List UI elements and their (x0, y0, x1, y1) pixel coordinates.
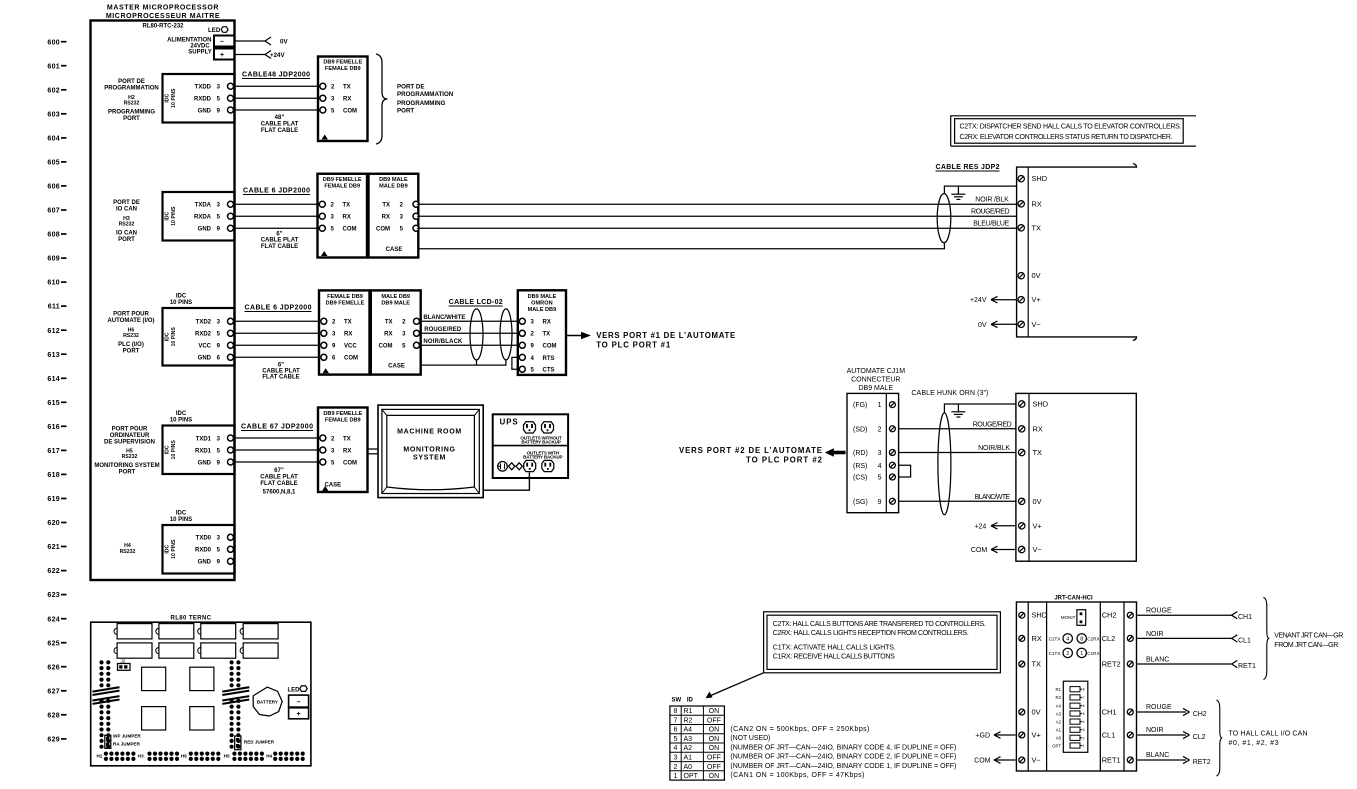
svg-text:J2: J2 (121, 659, 126, 664)
svg-text:UPS: UPS (500, 418, 519, 427)
svg-text:A1: A1 (684, 755, 693, 762)
wire NOIR from CL1 (1137, 637, 1231, 639)
svg-text:603: 603 (47, 111, 60, 118)
svg-text:TO HALL CALL I/O CAN: TO HALL CALL I/O CAN (1229, 731, 1308, 738)
wire +24V (235, 54, 266, 56)
svg-text:616: 616 (47, 424, 60, 431)
svg-text:GND: GND (198, 356, 212, 362)
svg-text:CABLE RES JDP2: CABLE RES JDP2 (936, 164, 1000, 171)
wire GND to pin5 (234, 109, 320, 111)
svg-text:602: 602 (47, 87, 60, 94)
svg-text:COM: COM (379, 344, 393, 350)
wire NOIR to CL2 (1137, 734, 1186, 736)
wire monitor to UPS (483, 473, 529, 491)
svg-text:PROGRAMMATION: PROGRAMMATION (104, 86, 159, 92)
svg-text:NOIR: NOIR (1146, 631, 1164, 638)
svg-text:OFF: OFF (707, 764, 721, 771)
svg-text:ON: ON (709, 745, 720, 752)
dispatcher box (open right) (1017, 164, 1137, 341)
svg-text:V+: V+ (1032, 295, 1041, 304)
svg-text:617: 617 (47, 448, 60, 455)
terminal RX (1019, 635, 1025, 641)
svg-text:COM: COM (343, 227, 357, 233)
wire (234, 449, 322, 451)
outlet without battery backup 1 (524, 422, 536, 433)
square chip (142, 707, 166, 730)
wire ROUGE to CH2 (1137, 711, 1186, 713)
svg-text:V+: V+ (1033, 521, 1042, 530)
svg-text:C1RX: RECEIVE HALL CALLS B: C1RX: RECEIVE HALL CALLS BUTTONS (773, 654, 895, 661)
svg-text:CABLE PLAT: CABLE PLAT (261, 238, 299, 244)
svg-text:SHD: SHD (1032, 174, 1048, 183)
wire (234, 356, 320, 358)
svg-text:GND: GND (198, 227, 212, 233)
wire BLANC from RET1 (1137, 663, 1231, 665)
terminal V+ (1019, 523, 1025, 529)
connector DB9 male IO CAN (369, 174, 419, 258)
svg-text:610: 610 (47, 280, 60, 287)
svg-text:67”: 67” (274, 468, 284, 474)
WP/RA jumper block (105, 735, 111, 748)
svg-text:2: 2 (878, 426, 882, 433)
svg-text:JRT-CAN-HCI: JRT-CAN-HCI (1054, 596, 1093, 602)
terminal SHD (1019, 612, 1025, 618)
svg-text:RXD1: RXD1 (195, 448, 212, 454)
svg-text:C2RX: HALL CALLS LIGHTS RE: C2RX: HALL CALLS LIGHTS RECEPTION FROM C… (773, 630, 969, 637)
terminal RX (1018, 201, 1024, 207)
svg-text:#0, #1, #2, #3: #0, #1, #2, #3 (1229, 740, 1279, 747)
wire SHD (944, 404, 1016, 413)
svg-text:A4: A4 (1056, 704, 1062, 709)
wire blanc/white (420, 320, 522, 322)
wire TXDD to pin2 (234, 85, 320, 87)
svg-text:MALE DB9: MALE DB9 (381, 294, 410, 300)
svg-text:10 PINS: 10 PINS (171, 327, 177, 347)
svg-text:IO CAN: IO CAN (116, 207, 137, 213)
svg-text:C2TX: HALL CALLS BUTTONS A: C2TX: HALL CALLS BUTTONS ARE TRANSFERED … (773, 621, 986, 628)
svg-text:ON: ON (709, 727, 720, 734)
svg-text:RL80-RTC-232: RL80-RTC-232 (142, 24, 184, 30)
svg-text:IDC: IDC (164, 544, 170, 553)
svg-text:TXD1: TXD1 (196, 436, 212, 442)
svg-text:ROUGE/RED: ROUGE/RED (424, 327, 462, 333)
svg-text:GND: GND (198, 460, 212, 466)
wire rouge/red (420, 332, 522, 334)
wire case to shields (421, 360, 506, 365)
svg-text:IO CAN: IO CAN (116, 231, 137, 237)
svg-text:+: + (297, 711, 301, 718)
svg-text:RX: RX (343, 215, 351, 221)
wire RXDA (234, 215, 320, 217)
jumper RTS-CTS (512, 357, 519, 369)
svg-text:A0: A0 (684, 764, 693, 771)
svg-text:(CAN2 ON = 500Kbps, OFF =: (CAN2 ON = 500Kbps, OFF = 250Kbps) (730, 726, 869, 733)
svg-text:FLAT CABLE: FLAT CABLE (260, 481, 297, 487)
svg-text:620: 620 (47, 520, 60, 527)
svg-text:SHD: SHD (1033, 400, 1049, 409)
svg-text:1: 1 (1083, 744, 1085, 748)
svg-text:VCC: VCC (344, 344, 357, 350)
svg-text:MICROPROCESSEUR MAITRE: MICROPROCESSEUR MAITRE (106, 13, 220, 20)
svg-text:2: 2 (1066, 651, 1069, 657)
terminal 0V (1019, 709, 1025, 715)
svg-text:DB9 FEMELLE: DB9 FEMELLE (326, 300, 365, 306)
svg-text:0V: 0V (978, 322, 987, 329)
svg-text:9: 9 (878, 499, 882, 506)
svg-text:PROGRAMMATION: PROGRAMMATION (397, 91, 454, 98)
LED C2RX 8 (1077, 634, 1086, 643)
svg-text:TX: TX (344, 320, 352, 326)
svg-text:625: 625 (47, 640, 60, 647)
svg-text:605: 605 (47, 160, 60, 167)
svg-text:PLC (I/O): PLC (I/O) (118, 342, 144, 348)
svg-text:OFF: OFF (707, 755, 721, 762)
svg-text:628: 628 (47, 712, 60, 719)
svg-text:FEMALE DB9: FEMALE DB9 (327, 294, 363, 300)
svg-text:(NUMBER OF JRT—CAN—24IO, BI: (NUMBER OF JRT—CAN—24IO, BINARY CODE 2, … (730, 754, 956, 761)
svg-text:OPT: OPT (684, 773, 699, 780)
svg-text:COM: COM (376, 227, 390, 233)
svg-text:H5: H5 (224, 754, 230, 759)
svg-text:2: 2 (1083, 736, 1085, 740)
svg-text:DB9 MALE: DB9 MALE (381, 300, 410, 306)
ground (957, 186, 959, 194)
terminal V+ (1018, 297, 1024, 303)
svg-text:MACHINE ROOM: MACHINE ROOM (397, 429, 462, 436)
svg-text:RXDA: RXDA (194, 215, 212, 221)
wire noir/black (420, 344, 522, 346)
wire SHD shield (944, 186, 1016, 193)
note box dispatcher (951, 116, 1196, 146)
svg-text:607: 607 (47, 208, 60, 215)
svg-text:ID: ID (687, 698, 694, 704)
svg-text:PORT: PORT (118, 237, 135, 243)
svg-text:PORT POUR: PORT POUR (112, 427, 148, 433)
IC chip row2 #2 (159, 643, 194, 658)
diamond 1 (509, 463, 515, 470)
svg-text:(RS): (RS) (853, 463, 867, 470)
shield ellipse (937, 194, 951, 243)
svg-text:5: 5 (878, 475, 882, 482)
terminal SHD (1019, 401, 1025, 407)
svg-text:PROGRAMMING: PROGRAMMING (397, 100, 446, 107)
svg-text:604: 604 (47, 136, 60, 143)
svg-text:RX: RX (344, 332, 352, 338)
svg-text:+24V: +24V (970, 297, 987, 304)
svg-text:(NUMBER OF JRT—CAN—24IO, BI: (NUMBER OF JRT—CAN—24IO, BINARY CODE 1, … (730, 763, 956, 770)
terminal RX (1019, 426, 1025, 432)
svg-text:DB9 MALE: DB9 MALE (379, 177, 408, 183)
hatch left column (93, 687, 120, 704)
svg-text:CH1: CH1 (1102, 708, 1117, 717)
brace programming port (376, 54, 388, 144)
wire RXDD to pin3 (234, 97, 320, 99)
svg-text:LED: LED (288, 688, 301, 694)
svg-text:10 PINS: 10 PINS (171, 206, 177, 226)
svg-text:PORT DE: PORT DE (397, 84, 425, 91)
svg-text:TX: TX (1033, 448, 1043, 457)
wire DB9 to monitor (double) (368, 448, 379, 450)
svg-text:NOIR /BLK: NOIR /BLK (975, 196, 1009, 203)
plus terminal (289, 708, 309, 719)
svg-text:606: 606 (47, 184, 60, 191)
svg-text:H3: H3 (138, 754, 144, 759)
svg-text:GND: GND (198, 560, 212, 566)
svg-text:TXD2: TXD2 (196, 320, 212, 326)
svg-text:6”: 6” (278, 362, 284, 368)
svg-text:626: 626 (47, 664, 60, 671)
svg-text:TXDA: TXDA (195, 203, 212, 209)
svg-text:FLAT CABLE: FLAT CABLE (261, 128, 298, 134)
svg-text:1: 1 (1080, 651, 1083, 657)
connector DB9 female monitoring (318, 408, 368, 493)
svg-text:5: 5 (1083, 712, 1085, 716)
wire BLANC to RET2 (1137, 759, 1186, 761)
svg-text:(RD): (RD) (853, 450, 868, 457)
wire RX3 long rouge/red (417, 215, 1017, 217)
svg-text:RL80 TERNC: RL80 TERNC (170, 616, 211, 622)
svg-text:A1: A1 (1056, 728, 1062, 733)
svg-text:V−: V− (1032, 320, 1041, 329)
svg-text:ROUGE: ROUGE (1146, 608, 1172, 615)
svg-text:3: 3 (878, 450, 882, 457)
svg-text:OPT: OPT (1052, 743, 1061, 748)
wire RD3 to TX noir/blk (899, 452, 1016, 454)
svg-text:4: 4 (878, 463, 882, 470)
svg-text:FROM JRT CAN—GR: FROM JRT CAN—GR (1274, 642, 1338, 649)
svg-text:C1TX: ACTIVATE HALL CALLS: C1TX: ACTIVATE HALL CALLS LIGHTS. (773, 644, 896, 651)
svg-text:CASE: CASE (386, 247, 403, 253)
svg-text:629: 629 (47, 737, 60, 744)
svg-text:RS232: RS232 (124, 101, 140, 107)
connector DB9 female IO CAN (318, 174, 368, 258)
svg-text:+GD: +GD (975, 733, 990, 740)
svg-text:IDC: IDC (164, 445, 170, 454)
svg-text:RA JUMPER: RA JUMPER (113, 741, 141, 746)
svg-text:LED: LED (208, 27, 221, 34)
svg-text:(CAN1 ON = 100Kbps, OFF =: (CAN1 ON = 100Kbps, OFF = 47Kbps) (730, 772, 864, 779)
svg-text:RX: RX (1033, 424, 1043, 433)
svg-text:RX: RX (382, 215, 390, 221)
svg-text:RX: RX (1032, 634, 1042, 643)
svg-text:FLAT CABLE: FLAT CABLE (262, 375, 299, 381)
shield ellipse 2 (500, 309, 512, 360)
svg-text:R2: R2 (1056, 695, 1062, 700)
svg-text:0V: 0V (1033, 497, 1042, 506)
svg-text:+24V: +24V (270, 52, 285, 59)
svg-text:615: 615 (47, 400, 60, 407)
svg-text:DB9 FEMELLE: DB9 FEMELLE (323, 411, 362, 417)
svg-text:RX: RX (543, 320, 551, 326)
wire (234, 344, 320, 346)
svg-text:TX: TX (385, 320, 393, 326)
IC chip row1 #1 (117, 624, 152, 639)
svg-text:CABLE HUNK ORN (3”): CABLE HUNK ORN (3”) (911, 390, 988, 397)
svg-text:ROUGE/RED: ROUGE/RED (973, 421, 1012, 428)
svg-text:0V: 0V (1032, 271, 1041, 280)
battery (253, 687, 282, 716)
svg-text:618: 618 (47, 472, 60, 479)
wire GND (234, 227, 320, 229)
svg-text:4: 4 (1083, 720, 1085, 724)
svg-text:RXDD: RXDD (194, 97, 212, 103)
svg-text:CABLE PLAT: CABLE PLAT (260, 475, 298, 481)
outlet with battery backup 2 (542, 460, 554, 471)
svg-text:MONITORING SYSTEM: MONITORING SYSTEM (94, 463, 159, 469)
svg-text:BLANC: BLANC (1146, 752, 1169, 759)
svg-text:V−: V− (1032, 756, 1041, 765)
svg-text:RXD2: RXD2 (195, 332, 212, 338)
svg-text:MONIT: MONIT (1061, 615, 1076, 620)
wire (234, 320, 320, 322)
svg-text:CH1: CH1 (1238, 614, 1252, 621)
svg-text:7: 7 (1083, 696, 1085, 700)
svg-text:CL2: CL2 (1193, 734, 1206, 741)
svg-text:DB9 MALE: DB9 MALE (528, 294, 557, 300)
svg-text:(NOT USED): (NOT USED) (730, 735, 770, 742)
terminal V&#8722; (1019, 546, 1025, 552)
svg-text:ROUGE/RED: ROUGE/RED (971, 208, 1010, 215)
svg-text:ON: ON (709, 736, 720, 743)
svg-text:R2: R2 (684, 718, 693, 725)
wire TX2 long to dispatcher RX (417, 203, 1017, 205)
svg-text:C1RX: C1RX (1087, 651, 1099, 656)
svg-text:6”: 6” (276, 231, 282, 237)
svg-text:TX: TX (343, 85, 351, 91)
svg-text:5: 5 (674, 736, 678, 743)
svg-text:RXD0: RXD0 (195, 548, 212, 554)
connector H3 IDC 10 pins IO CAN port (163, 192, 235, 241)
svg-text:VERS PORT #1 DE L’AUTOMATE: VERS PORT #1 DE L’AUTOMATE (596, 331, 735, 340)
svg-text:H4: H4 (266, 754, 272, 759)
wire SG9 to 0V blanc/wte (899, 500, 1016, 502)
IC chip row1 #4 (243, 624, 278, 639)
svg-text:3: 3 (674, 755, 678, 762)
svg-text:FEMALE DB9: FEMALE DB9 (325, 66, 361, 72)
svg-text:0V: 0V (1032, 708, 1041, 717)
svg-text:COM: COM (974, 758, 991, 765)
svg-text:10 PINS: 10 PINS (170, 418, 192, 424)
svg-text:A4: A4 (684, 727, 693, 734)
svg-text:–: – (220, 39, 224, 46)
svg-text:CABLE PLAT: CABLE PLAT (261, 122, 299, 128)
terminal TX (1019, 449, 1025, 455)
svg-text:MASTER MICROPROCESSOR: MASTER MICROPROCESSOR (107, 5, 219, 12)
hatch right column (222, 687, 249, 704)
svg-text:TO PLC PORT #1: TO PLC PORT #1 (596, 341, 671, 350)
pin header column right (230, 660, 241, 749)
svg-text:8: 8 (1080, 637, 1083, 643)
svg-text:NOIR: NOIR (1146, 727, 1164, 734)
svg-text:CABLE LCD-02: CABLE LCD-02 (449, 299, 503, 306)
svg-text:CONNECTEUR: CONNECTEUR (851, 376, 900, 383)
svg-text:TXD0: TXD0 (196, 536, 212, 542)
connector DB9 male PLC (371, 290, 421, 374)
svg-text:BLEU/BLUE: BLEU/BLUE (973, 220, 1009, 227)
shield ellipse 1 (470, 309, 483, 360)
LED C1RX 1 (1077, 648, 1086, 657)
svg-text:R1: R1 (1056, 687, 1062, 692)
svg-text:TX: TX (1032, 223, 1042, 232)
svg-text:RS232: RS232 (123, 333, 139, 339)
svg-text:RX: RX (384, 332, 392, 338)
square chip (190, 707, 214, 730)
svg-text:RX: RX (343, 448, 351, 454)
svg-text:IDC: IDC (176, 511, 187, 517)
svg-text:RED JUMPER: RED JUMPER (244, 740, 275, 745)
svg-text:RX: RX (1032, 199, 1042, 208)
wire (234, 332, 320, 334)
svg-text:612: 612 (47, 328, 60, 335)
svg-text:RS232: RS232 (122, 454, 138, 460)
UPS box (493, 414, 568, 478)
svg-text:609: 609 (47, 256, 60, 263)
svg-text:48”: 48” (275, 115, 285, 121)
wire COM5 long to dispatcher TX (417, 227, 1017, 229)
svg-text:FEMALE DB9: FEMALE DB9 (325, 417, 361, 423)
svg-text:CASE: CASE (388, 364, 405, 370)
svg-text:NOIR/BLACK: NOIR/BLACK (423, 339, 463, 345)
svg-text:ON: ON (709, 708, 720, 715)
svg-text:10 PINS: 10 PINS (171, 88, 177, 108)
plug symbol (498, 462, 508, 472)
svg-text:PORT: PORT (397, 108, 414, 115)
wire SD2 to RX rouge/red (899, 428, 1016, 430)
DIP switch block (1063, 681, 1088, 752)
connector DB9 female PLC (319, 290, 370, 374)
square chip (142, 667, 166, 690)
svg-text:RET2: RET2 (1193, 759, 1211, 766)
svg-text:CABLE 67 JDP2000: CABLE 67 JDP2000 (241, 424, 313, 431)
IC chip row2 #1 (117, 643, 152, 658)
wire 0V (235, 40, 266, 42)
wire (234, 437, 322, 439)
arrow to PLC port 2 (833, 451, 846, 455)
svg-text:6: 6 (674, 727, 678, 734)
svg-text:AUTOMATE (I/O): AUTOMATE (I/O) (107, 318, 154, 324)
terminal V+ (1019, 732, 1025, 738)
svg-text:MALE DB9: MALE DB9 (528, 307, 557, 313)
svg-text:RET1: RET1 (1102, 756, 1121, 765)
svg-text:A3: A3 (1056, 711, 1062, 716)
svg-text:TX: TX (343, 203, 351, 209)
wire CASE shield drain (418, 244, 944, 249)
svg-text:DB9 MALE: DB9 MALE (858, 385, 893, 392)
wire ROUGE from CH1 (1137, 614, 1231, 616)
svg-text:CL1: CL1 (1238, 637, 1251, 644)
svg-text:SYSTEM: SYSTEM (413, 455, 446, 462)
svg-text:RET2: RET2 (1102, 660, 1121, 669)
svg-text:624: 624 (47, 616, 60, 623)
svg-text:PORT: PORT (123, 116, 140, 122)
svg-text:C2TX: C2TX (1049, 637, 1061, 642)
svg-text:57600,N,8,1: 57600,N,8,1 (263, 490, 296, 496)
svg-text:SW: SW (672, 698, 682, 704)
svg-text:(NUMBER OF JRT—CAN—24IO, BI: (NUMBER OF JRT—CAN—24IO, BINARY CODE 4, … (730, 745, 956, 752)
svg-text:622: 622 (47, 568, 60, 575)
svg-text:CH2: CH2 (1102, 611, 1117, 620)
shield ellipse (938, 413, 951, 515)
svg-text:A2: A2 (684, 745, 693, 752)
svg-text:C2RX: ELEVATOR CONTROLLERS: C2RX: ELEVATOR CONTROLLERS STATUS RETURN… (960, 134, 1173, 141)
terminal V&#8722; (1018, 321, 1024, 327)
svg-text:IDC: IDC (164, 93, 170, 102)
svg-text:623: 623 (47, 592, 60, 599)
svg-text:4: 4 (674, 745, 678, 752)
svg-text:CTS: CTS (543, 368, 555, 374)
svg-text:10 PINS: 10 PINS (170, 517, 192, 523)
svg-text:TO PLC PORT #2: TO PLC PORT #2 (746, 455, 823, 464)
